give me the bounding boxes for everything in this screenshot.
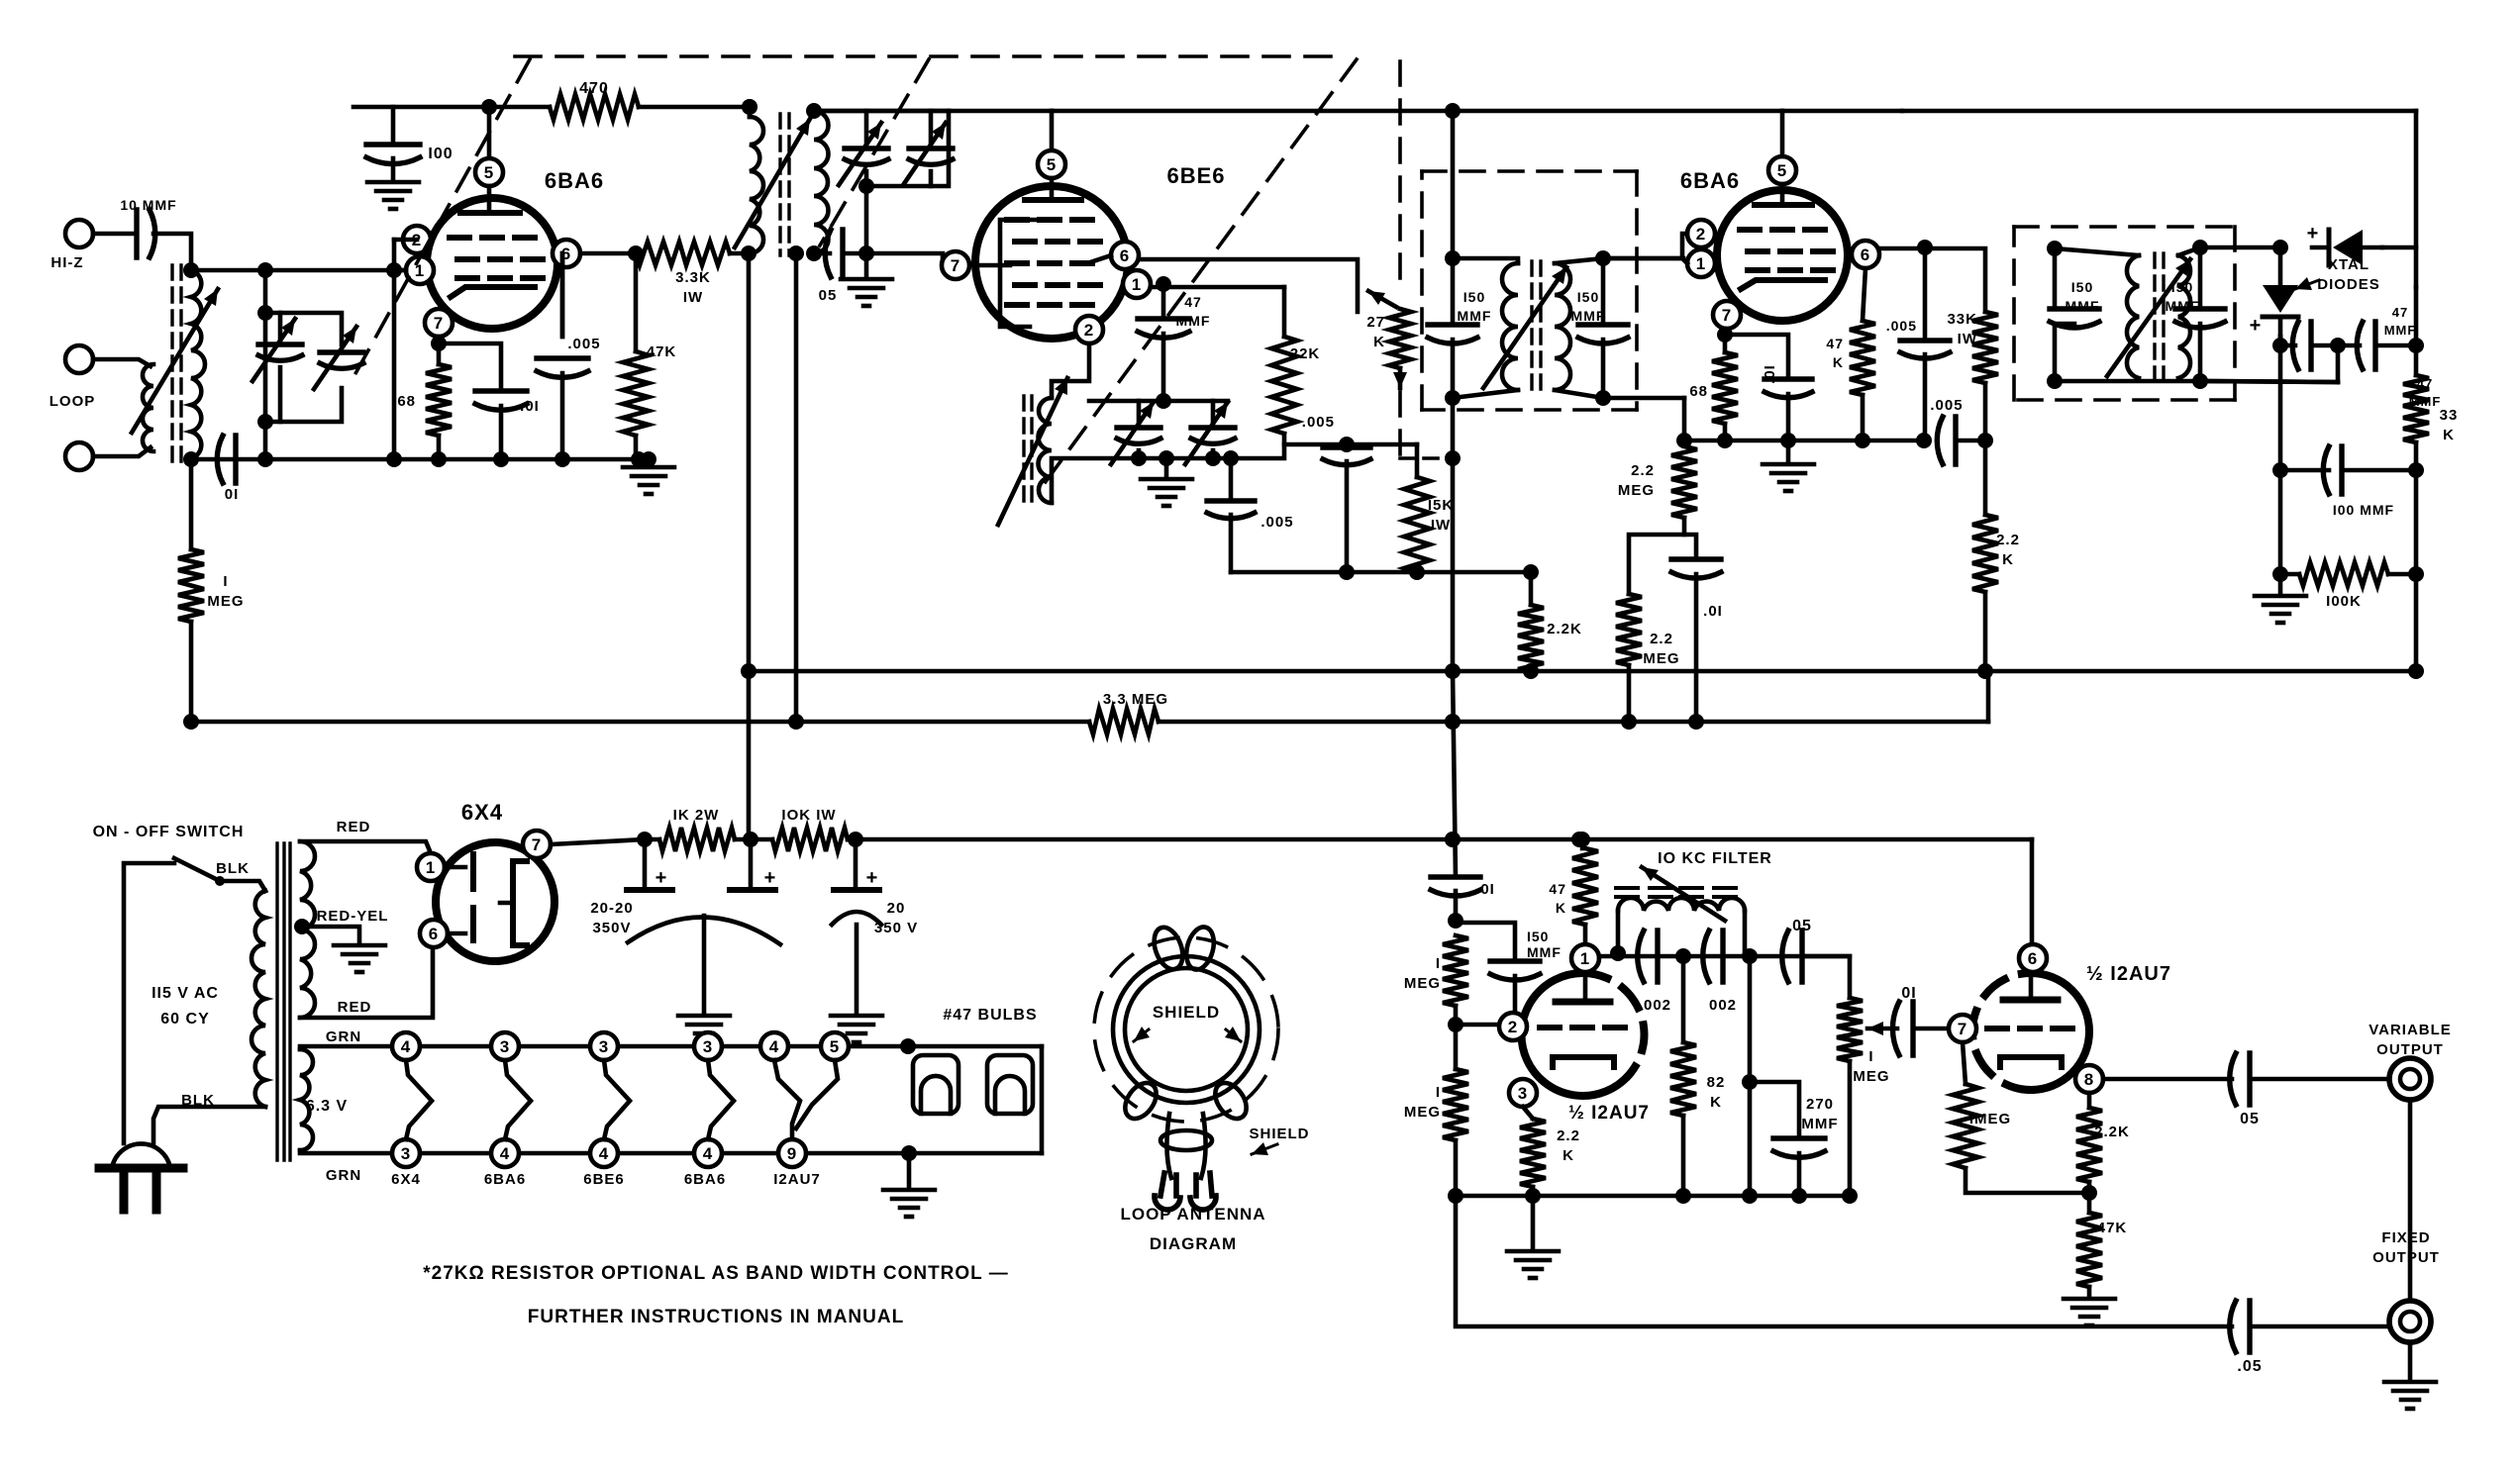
wire T1 grid tap down <box>864 186 869 253</box>
svg-text:1: 1 <box>1132 275 1142 294</box>
wire 22K top <box>1282 287 1287 337</box>
dots pin1 wire <box>1610 945 1758 964</box>
wire 2.2K to bus A <box>1529 671 1534 672</box>
svg-text:8: 8 <box>2084 1070 2094 1089</box>
dot trimmer rail <box>858 178 874 194</box>
svg-text:4: 4 <box>703 1144 713 1163</box>
power transformer core <box>277 843 290 1160</box>
svg-text:MEG: MEG <box>1853 1068 1889 1085</box>
capacitor .01 on antenna bus <box>217 436 236 483</box>
label 47K second <box>1826 336 1844 370</box>
heater filament zigzag 3 <box>604 1060 630 1139</box>
wire heater top right <box>908 1044 1042 1049</box>
wire pin1 grid wire <box>1151 285 1284 290</box>
variable trimmer capacitor C-ant-2 <box>314 327 363 389</box>
svg-text:I50: I50 <box>1527 929 1549 944</box>
wire T2 secondary top rail <box>1555 258 1683 263</box>
svg-text:.0I: .0I <box>1703 603 1723 620</box>
svg-text:6X4: 6X4 <box>391 1171 421 1188</box>
tube pin 1 second 6BA6 <box>1687 249 1715 277</box>
resistor 100K <box>2299 562 2388 586</box>
tube pin 5 second 6BA6 <box>1768 156 1796 184</box>
wire .005 top to plate node <box>560 253 565 337</box>
svg-text:6BE6: 6BE6 <box>583 1171 625 1188</box>
svg-text:IOK IW: IOK IW <box>781 807 836 824</box>
svg-text:47K: 47K <box>2097 1220 2128 1236</box>
dashed gang diagonal 3 <box>1042 59 1357 487</box>
wire osc top rail <box>1089 399 1228 404</box>
ground 20-20 <box>678 1016 730 1042</box>
resistor 68 cathode first 6BA6 <box>426 364 452 436</box>
svg-text:I: I <box>223 573 228 590</box>
svg-text:4: 4 <box>599 1144 609 1163</box>
label 27K <box>1366 314 1385 350</box>
wire .005a bottom <box>1345 461 1350 572</box>
svg-text:I00: I00 <box>428 146 453 162</box>
label .05 T1 <box>819 287 838 304</box>
loop antenna bottom left tab <box>1119 1077 1162 1125</box>
svg-text:I00K: I00K <box>2326 593 2362 610</box>
tube pin 1 12AU7a <box>1571 944 1599 972</box>
svg-text:LOOP: LOOP <box>50 393 96 410</box>
svg-text:270: 270 <box>1806 1096 1834 1113</box>
10KC filter coil <box>1618 898 1745 911</box>
dashed IF transformer T3 box <box>2014 227 2235 400</box>
label .01 AVC <box>1703 603 1723 620</box>
svg-text:5: 5 <box>484 163 494 182</box>
dot T2 secondary top <box>1595 250 1611 266</box>
resistor 3.3K 1W plate <box>636 242 730 265</box>
dot 01 junction <box>1448 913 1463 929</box>
wire 100 cap node to pin5 node <box>353 105 489 110</box>
wire .01 top jog <box>1684 535 1696 555</box>
svg-text:MMF: MMF <box>2384 323 2417 338</box>
wire junction to 150MMF <box>1456 923 1515 958</box>
svg-text:7: 7 <box>1722 306 1732 325</box>
wire trimmer box left side <box>263 313 268 459</box>
label 2.2K converter <box>1547 621 1582 637</box>
svg-text:MEG: MEG <box>1404 1104 1441 1121</box>
capacitor .01 AVC <box>1671 559 1721 578</box>
tube pin 8 12AU7b <box>2075 1065 2103 1093</box>
svg-text:6X4: 6X4 <box>461 800 503 825</box>
wire switch to primary <box>220 881 265 891</box>
svg-text:LOOP ANTENNA: LOOP ANTENNA <box>1120 1205 1265 1224</box>
dots long vertical <box>1445 714 1461 847</box>
ground oscillator <box>1141 479 1192 506</box>
resistor 47K screen first 6BA6 <box>623 351 649 436</box>
label 68 first <box>397 393 416 410</box>
dot dashed link <box>1445 450 1461 466</box>
heater pin 5 top at x=843 <box>821 1032 849 1060</box>
label 10K 1W <box>781 807 836 824</box>
svg-text:4: 4 <box>500 1144 510 1163</box>
svg-text:3: 3 <box>500 1037 510 1056</box>
svg-text:.005: .005 <box>1886 318 1917 334</box>
T1 trimmer cap 1 <box>839 123 888 185</box>
svg-text:68: 68 <box>1689 383 1708 400</box>
wire .005 series to node <box>1959 439 1985 443</box>
wire heater bottom <box>300 1150 909 1153</box>
resistor 47K audio <box>1572 848 1598 925</box>
wire pin6 to 47K <box>1863 268 1865 321</box>
wire 6BE6 pin5 drop <box>1050 111 1055 150</box>
wire input stage ground bus <box>191 457 649 462</box>
T1 core <box>780 114 789 255</box>
10KC filter arrow <box>1642 867 1725 921</box>
dots on B+ rail <box>742 99 1461 119</box>
ground T1 <box>841 279 892 306</box>
dots audio bus <box>1448 1188 1858 1204</box>
wire diode D1 to right column <box>2382 247 2416 287</box>
label 150 MMF T2b <box>1571 289 1606 324</box>
svg-text:6BA6: 6BA6 <box>1680 168 1740 193</box>
label BLK bottom <box>181 1092 215 1109</box>
wire pin5 drop 6BA6-2 <box>1780 111 1785 156</box>
svg-text:2: 2 <box>1084 321 1094 340</box>
resistor 1 MEG pot <box>1837 998 1863 1061</box>
tube pin 7 12AU7b <box>1949 1015 1976 1042</box>
junction dots on grid wire <box>183 262 402 278</box>
wire T3 right vertical lower <box>2198 324 2203 381</box>
resistor 1 MEG AVC <box>178 549 204 622</box>
wire gnd stem T1 <box>864 253 869 277</box>
wire 1MEG grid bottom <box>1966 1168 2089 1193</box>
heater pin 4 bottom at x=510 <box>491 1139 519 1167</box>
label .05 variable <box>2240 1111 2260 1127</box>
label 6BA6 first <box>545 168 604 193</box>
wire pin6 screen wire 2 <box>1879 248 1985 312</box>
svg-text:47: 47 <box>1549 881 1566 897</box>
wire 47MMF drop <box>1161 284 1166 315</box>
wire 2.2K top to pin8 <box>2087 1093 2092 1108</box>
svg-text:350 V: 350 V <box>874 920 918 936</box>
wire osc trim2 bottom <box>1211 450 1216 458</box>
electrolytic 20-20 plate 2 <box>730 887 775 893</box>
wire pin7 down 6BA6-2 <box>1723 329 1728 352</box>
wire rail to detector corner <box>1902 109 2416 114</box>
wire T2 secondary bottom rail <box>1555 390 1684 398</box>
wire heater bottom right <box>909 1151 1042 1156</box>
capacitor .01 audio feed <box>1431 877 1480 896</box>
wire T2 secondary bottom to 2.2MEG <box>1682 398 1687 441</box>
svg-text:20-20: 20-20 <box>590 900 633 917</box>
svg-text:FIXED: FIXED <box>2381 1229 2430 1246</box>
svg-text:I5K: I5K <box>1428 497 1454 514</box>
capacitor 100 <box>366 145 420 164</box>
heater pin 3 bottom at x=410 <box>392 1139 420 1167</box>
wire T3 right vertical upper <box>2198 247 2203 309</box>
T2 core <box>1532 261 1541 392</box>
resistor 33K detector <box>2403 375 2429 442</box>
wire 270MMF bottom <box>1797 1153 1802 1196</box>
wire .01 bottom to bus B <box>1694 574 1699 722</box>
dashed gang diagonal 1 <box>349 59 530 386</box>
svg-text:II5 V AC: II5 V AC <box>151 985 219 1002</box>
svg-text:ON - OFF SWITCH: ON - OFF SWITCH <box>93 824 245 840</box>
wire heater gnd stem <box>907 1153 912 1188</box>
label 270 MMF <box>1801 1096 1838 1132</box>
wire trimmer box bottom rail <box>265 388 342 422</box>
wire T3 left vertical upper <box>2055 248 2074 309</box>
dashed IF transformer T2 box <box>1422 171 1637 410</box>
label .005 second a <box>1886 318 1917 334</box>
dots 100MMF row <box>2272 462 2424 478</box>
ground 47K output <box>2064 1299 2115 1325</box>
svg-text:MMF: MMF <box>1458 308 1492 324</box>
heater pin 9 bottom at x=800 <box>778 1139 806 1167</box>
12AU7b internal plate <box>2003 974 2058 1000</box>
svg-text:9: 9 <box>787 1144 797 1163</box>
svg-text:XTAL: XTAL <box>2328 256 2369 273</box>
wire pin6 plate wire <box>580 251 636 256</box>
tube pin 7 second 6BA6 <box>1713 301 1741 329</box>
label 2.2K cathode a <box>1557 1127 1580 1164</box>
label 150 MMF audio <box>1527 929 1562 960</box>
wire 82K bottom <box>1681 1116 1686 1196</box>
wire osc trim1 top <box>1137 401 1142 428</box>
svg-text:33K: 33K <box>1947 311 1977 328</box>
svg-text:MMF: MMF <box>1571 308 1606 324</box>
label 1K 2W <box>673 807 720 824</box>
label .01 coupling <box>1901 985 1916 1002</box>
svg-text:SHIELD: SHIELD <box>1153 1003 1220 1022</box>
second 6BA6 internal top bar <box>1755 184 1812 205</box>
svg-text:I50: I50 <box>1463 289 1485 305</box>
svg-text:2.2: 2.2 <box>1631 462 1655 479</box>
svg-text:K: K <box>1833 354 1844 370</box>
svg-text:GRN: GRN <box>326 1029 361 1045</box>
antenna transformer secondary coil <box>191 270 205 458</box>
svg-text:#47 BULBS: #47 BULBS <box>943 1007 1037 1024</box>
antenna transformer core <box>172 265 181 463</box>
wire 1MEG-a bottom <box>1454 1006 1459 1069</box>
capacitor 100 MMF <box>2323 446 2342 494</box>
label 47 BULBS <box>943 1007 1037 1024</box>
svg-text:K: K <box>1710 1094 1722 1111</box>
wire rail seg a <box>645 837 659 842</box>
label BLK top <box>216 860 250 877</box>
svg-text:0I: 0I <box>225 486 240 503</box>
wire pin6 column top <box>560 253 565 337</box>
svg-text:3: 3 <box>1518 1084 1528 1103</box>
svg-text:6: 6 <box>1120 246 1130 265</box>
wire bulbs right side <box>1040 1046 1045 1153</box>
T3 secondary coil <box>2178 255 2190 378</box>
wire 1MEG-b bottom to bus <box>1454 1140 1459 1196</box>
dot T3 secondary top <box>2192 240 2208 255</box>
svg-text:3: 3 <box>703 1037 713 1056</box>
dot heater gnd <box>901 1145 917 1161</box>
label VARIABLE OUTPUT <box>2369 1022 2452 1058</box>
capacitor 47 MMF osc grid <box>1138 319 1189 338</box>
footnote line 2 <box>528 1307 904 1327</box>
label tube name 6X4 <box>391 1171 421 1188</box>
resistor 22K <box>1271 337 1297 434</box>
resistor 470 screen feed <box>550 94 639 120</box>
12AU7a internal grid dashes <box>1540 1025 1625 1030</box>
label 3.3 MEG <box>1103 691 1168 708</box>
svg-text:RED: RED <box>338 999 372 1016</box>
first 6BA6 internal top grid bar <box>460 186 520 213</box>
wire fixed cap to jack <box>2252 1324 2389 1329</box>
capacitor .01 cathode second <box>1764 379 1812 398</box>
dot bulb node <box>900 1038 916 1054</box>
label tube name 6BA6 <box>684 1171 726 1188</box>
wire pin7 to .01 cap 2 <box>1725 335 1788 377</box>
wire 47MMF right <box>2378 343 2416 348</box>
svg-text:33: 33 <box>2440 407 2459 424</box>
wire .005-2a bottom <box>1923 354 1928 441</box>
wire T2 feed vertical <box>1451 111 1456 258</box>
label 6BA6 second <box>1680 168 1740 193</box>
junction dots input bus <box>183 451 656 467</box>
label 68 second <box>1689 383 1708 400</box>
wire pin1 to filter <box>1599 954 1850 959</box>
dots bus A <box>741 663 2424 679</box>
heater filament 12AU7 a <box>774 1060 800 1139</box>
svg-text:3.3K: 3.3K <box>675 269 711 286</box>
resistor 2.2 MEG second <box>1616 594 1642 665</box>
second 6BA6 internal cathode <box>1741 280 1825 289</box>
wire 22K bottom to node <box>1284 434 1417 444</box>
dot T2 primary top <box>1445 250 1461 266</box>
svg-text:*27KΩ RESISTOR OPTIONAL AS: *27KΩ RESISTOR OPTIONAL AS BAND WIDTH CO… <box>423 1263 1008 1284</box>
dot T1 secondary top <box>806 103 822 119</box>
12AU7a internal cathode <box>1553 1057 1614 1067</box>
dot 1MEG bottom <box>1448 1017 1463 1032</box>
label 1 MEG audio b <box>1404 1084 1441 1121</box>
dot T3 primary top <box>2047 241 2063 256</box>
wire T2 primary bottom rail <box>1453 390 1518 398</box>
svg-text:6BA6: 6BA6 <box>545 168 604 193</box>
wire 10MMF cap to grid node <box>153 234 191 270</box>
svg-text:OUTPUT: OUTPUT <box>2372 1249 2440 1266</box>
label tube name 6BE6 <box>583 1171 625 1188</box>
dot plate node <box>628 245 644 261</box>
wire 100MMF left <box>2280 468 2329 473</box>
wire osc bottom bus <box>1231 570 1531 575</box>
wire coil right drop <box>1743 911 1748 953</box>
wire 15K top <box>1415 444 1420 477</box>
heater filament zigzag 4 <box>708 1060 734 1139</box>
wire 2.2K bottom <box>2087 1182 2092 1213</box>
12AU7b internal grid dashes <box>1987 1026 2072 1031</box>
label tube name 6BA6 <box>484 1171 526 1188</box>
label 10 KC FILTER <box>1658 850 1772 867</box>
wire rail to T2 <box>1052 109 1453 114</box>
T1 trimmer cap 2 <box>903 123 953 185</box>
svg-text:2: 2 <box>1508 1018 1518 1036</box>
svg-text:.0I: .0I <box>1475 881 1495 898</box>
ground under 100 cap <box>367 182 419 209</box>
heater pin 4 bottom at x=715 <box>694 1139 722 1167</box>
capacitor 47 MMF b <box>2357 322 2375 369</box>
wire T1 secondary top rail <box>814 109 949 114</box>
dot T2 secondary bottom <box>1595 390 1611 406</box>
svg-text:RED: RED <box>337 819 371 835</box>
capacitor .05 T1 <box>825 230 843 277</box>
svg-text:K: K <box>1556 900 1566 916</box>
wire gnd stem 2 <box>1786 441 1791 462</box>
label .05 fixed <box>2237 1358 2262 1375</box>
wire pot bottom <box>1848 1061 1853 1196</box>
label 47K audio <box>1549 881 1566 916</box>
wire tap to T3 rail <box>2200 381 2338 382</box>
svg-text:.0I: .0I <box>1762 364 1778 384</box>
ground 20 <box>831 1016 882 1042</box>
dot 2.2MEG top <box>1676 433 1692 448</box>
loop antenna winding outer circle <box>1113 956 1260 1103</box>
svg-text:MMF: MMF <box>2066 298 2100 314</box>
capacitor 270 MMF <box>1773 1138 1825 1157</box>
tube pin 3 12AU7a <box>1509 1079 1537 1107</box>
svg-text:68: 68 <box>397 393 416 410</box>
label 2.2K screen bleed <box>1996 532 2020 568</box>
wire 100MMF node down <box>2278 470 2283 574</box>
dashed gang line horizontal <box>515 54 1339 58</box>
dot T1 vert <box>741 245 756 261</box>
wire pin6 screen wire <box>1139 259 1358 312</box>
wire trimmer T1-1 top <box>864 111 869 148</box>
dot T1 ground node <box>858 245 874 261</box>
wire .005-2a top <box>1923 247 1928 341</box>
resistor 2.2K cathode b <box>2076 1108 2102 1182</box>
wire rail to screen column <box>1782 109 1902 114</box>
wire 2.2K bleed to bus A <box>1983 592 1988 671</box>
wire 2.2MEG bottom jog <box>1629 518 1684 594</box>
svg-text:IO KC FILTER: IO KC FILTER <box>1658 850 1772 867</box>
wire x1767 vertical <box>1748 956 1753 1196</box>
T1 tuning arrow <box>735 119 810 247</box>
dashed gang diagonal 2 <box>820 59 929 245</box>
svg-text:6BA6: 6BA6 <box>684 1171 726 1188</box>
junction dots trimmer box <box>257 305 273 430</box>
dots 100K row <box>2272 566 2424 582</box>
heater filament 12AU7 b <box>796 1060 838 1128</box>
tube pin 7 6BE6 <box>942 251 969 279</box>
wire LOOP jack2 to primary top <box>93 359 151 366</box>
wire osc trim2 top <box>1211 401 1216 428</box>
wire to pin 2 <box>1456 1023 1499 1028</box>
dot 33K bottom node <box>1977 433 1993 448</box>
wire .01-2 bottom to bus <box>1786 394 1791 441</box>
tube pin 6 6BE6 <box>1111 242 1139 269</box>
label RED bottom <box>338 999 372 1016</box>
resistor 1K 2W <box>659 828 735 851</box>
10KC filter core dashes <box>1616 888 1736 897</box>
svg-text:6.3 V: 6.3 V <box>306 1098 348 1115</box>
capacitor .01 cathode bypass first 6BA6 <box>475 391 527 410</box>
wire 47MMF to osc coil rail <box>1161 334 1166 401</box>
tube pin 2 first 6BA6 <box>403 226 431 253</box>
svg-text:.005: .005 <box>1302 414 1335 431</box>
wire coil left drop <box>1616 911 1621 953</box>
svg-text:DIODES: DIODES <box>2317 276 2380 293</box>
wire .01 bottom to bus <box>499 406 504 459</box>
capacitor 150 MMF audio <box>1490 961 1540 980</box>
capacitor .005 second a <box>1900 341 1950 358</box>
wire T1 primary vertical <box>747 253 752 839</box>
wire 2.2K-a bottom <box>1531 1187 1536 1196</box>
oscillator coil <box>1039 398 1053 503</box>
wire T2 right vertical upper <box>1601 258 1606 325</box>
svg-text:6: 6 <box>2028 949 2038 968</box>
tube pin 7 6X4 <box>523 831 551 858</box>
label 2.2 MEG <box>1618 462 1655 499</box>
svg-text:.005: .005 <box>567 336 600 352</box>
wire 100MMF right <box>2345 468 2416 473</box>
